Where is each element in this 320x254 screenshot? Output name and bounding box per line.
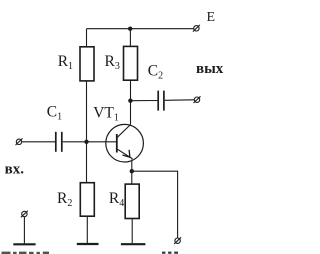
terminal output: [194, 96, 201, 103]
svg-text:вх.: вх.: [5, 161, 25, 177]
resistor R4: [125, 184, 139, 218]
wire emitter down: [131, 159, 133, 184]
node base junction: [84, 140, 88, 144]
wire R1 bottom to base junction: [86, 81, 88, 142]
ground bottom left: [13, 243, 35, 245]
ground under R4: [121, 243, 145, 245]
wire emitter to output branch: [132, 171, 178, 238]
wire base junction to R2: [86, 142, 88, 183]
terminal input: [16, 138, 23, 145]
wire C2 branch: [130, 100, 157, 102]
node collector C2 junction: [128, 99, 132, 103]
resistor R1: [80, 47, 94, 81]
resistor R2: [80, 183, 94, 217]
terminal bottom left: [21, 211, 28, 218]
wire top supply rail: [87, 28, 194, 30]
wire input to C1: [22, 141, 55, 143]
svg-text:E: E: [207, 10, 216, 25]
ground under R2: [77, 243, 99, 245]
transistor VT1: [106, 124, 144, 162]
svg-text:вых: вых: [196, 61, 224, 77]
wire R2 to ground: [86, 216, 88, 243]
terminal bottom right: [174, 237, 181, 244]
cropped caption remnants bottom left: [2, 252, 50, 254]
resistor R3: [124, 46, 138, 80]
wire C2 to output terminal: [165, 99, 195, 102]
terminal E: [193, 25, 200, 32]
node supply junction: [128, 27, 132, 31]
cropped caption remnants bottom right: [162, 252, 178, 254]
wire bottom left terminal to ground: [23, 217, 25, 244]
wire R4 to ground: [131, 219, 133, 244]
wire collector up: [130, 80, 132, 124]
capacitor C2: [158, 91, 164, 111]
node emitter junction: [130, 169, 134, 173]
wire C1 to base: [63, 141, 117, 143]
capacitor C1: [56, 132, 62, 152]
wire R1 top: [86, 29, 88, 47]
wire R3 top: [129, 29, 131, 47]
